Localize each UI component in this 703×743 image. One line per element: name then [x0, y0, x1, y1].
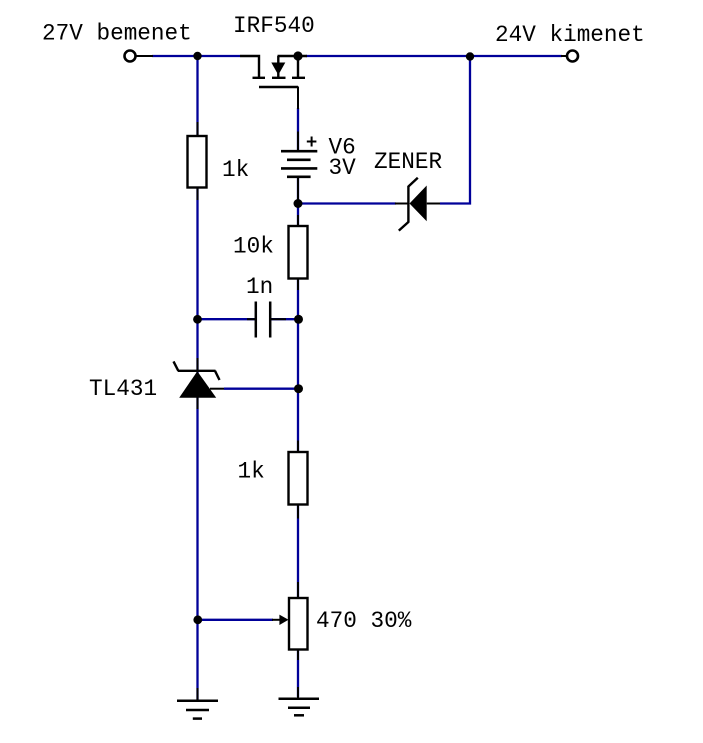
svg-text:IRF540: IRF540: [233, 13, 315, 39]
svg-text:1k: 1k: [238, 459, 265, 485]
svg-text:24V kimenet: 24V kimenet: [495, 22, 645, 48]
svg-text:470 30%: 470 30%: [316, 608, 412, 634]
svg-text:3V: 3V: [329, 155, 357, 181]
svg-text:1n: 1n: [246, 274, 273, 300]
svg-text:1k: 1k: [222, 157, 249, 183]
svg-text:ZENER: ZENER: [374, 149, 442, 175]
svg-text:27V bemenet: 27V bemenet: [42, 21, 192, 47]
svg-text:10k: 10k: [233, 233, 274, 259]
svg-text:TL431: TL431: [89, 376, 157, 402]
